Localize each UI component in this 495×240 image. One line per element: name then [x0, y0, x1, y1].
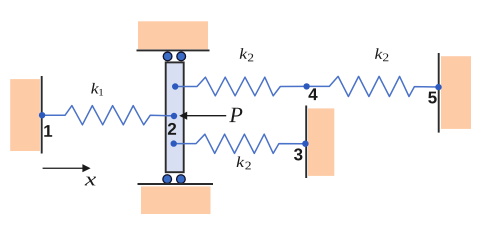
label k2 bottom (k): [237, 156, 245, 167]
wall bottom line: [138, 183, 214, 185]
rigid bar: [166, 62, 184, 172]
label node 4: [308, 88, 317, 100]
label node 3: [294, 148, 302, 160]
label k2 bottom (sub 2): [245, 162, 250, 170]
label k2 right (sub 2): [383, 53, 388, 61]
wall top block: [138, 21, 208, 49]
node 3: [302, 141, 308, 147]
node on bar (top attachment): [172, 83, 178, 89]
label k1 (sub 1): [99, 89, 103, 96]
label k1 (k): [91, 83, 99, 94]
label k2 top (k): [240, 48, 248, 59]
wall left block: [10, 79, 40, 151]
label node 5: [428, 92, 436, 104]
node 4: [303, 83, 309, 89]
roller bottom-right: [177, 175, 186, 184]
label node 1: [44, 125, 52, 137]
roller bottom-left: [163, 175, 172, 184]
label k2 right (k): [375, 48, 383, 59]
node 2: [171, 113, 177, 119]
spring k2 bottom: [174, 134, 306, 153]
wall mid-right line: [305, 106, 307, 179]
node 5: [435, 84, 441, 90]
wall right line: [438, 53, 440, 133]
label k2 top (sub 2): [248, 54, 253, 62]
wall left line: [41, 76, 43, 154]
force arrow P: [179, 112, 226, 120]
wall right block: [441, 56, 471, 129]
node on bar (bottom attachment): [171, 140, 177, 146]
spring k2 right: [307, 76, 439, 96]
node 1: [39, 112, 45, 118]
roller top-right: [177, 52, 186, 61]
wall top line: [137, 49, 210, 51]
label node 2: [168, 123, 176, 135]
label P: [229, 108, 242, 122]
spring k2 top: [175, 77, 306, 96]
roller top-left: [163, 52, 172, 61]
wall mid-right block: [308, 108, 334, 175]
wall bottom block: [141, 186, 211, 214]
coordinate arrow x: [43, 164, 91, 172]
spring k1: [42, 106, 174, 125]
label x: [85, 177, 96, 186]
